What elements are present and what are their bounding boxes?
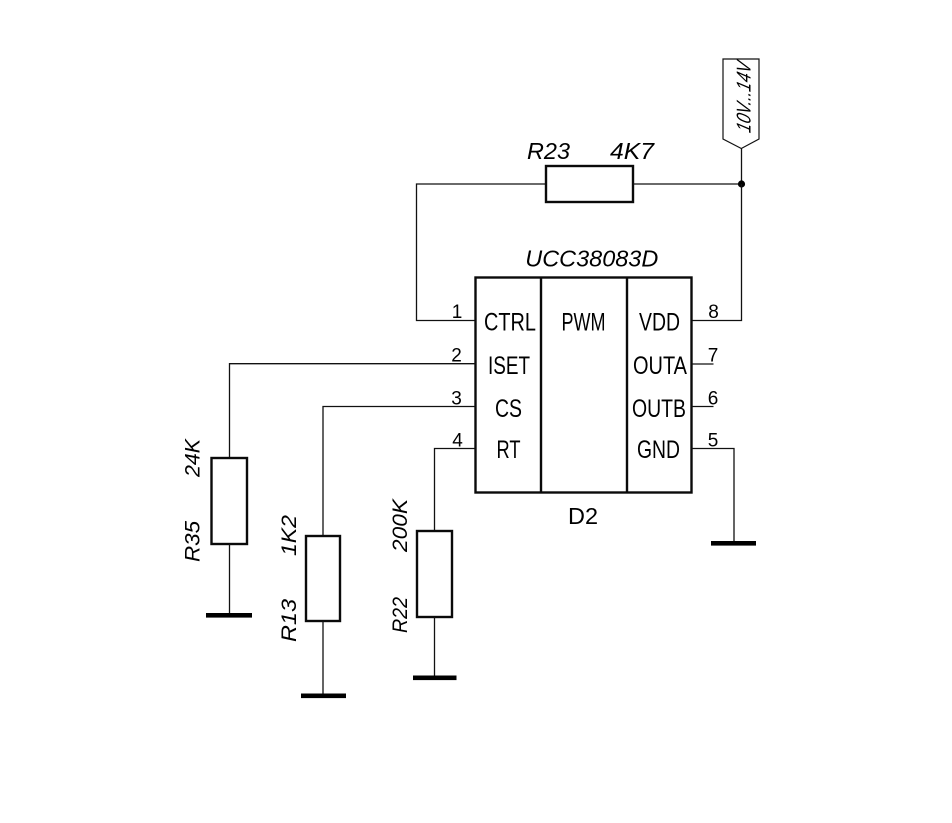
svg-text:1: 1 <box>452 302 463 323</box>
IC D2 UCC38083D body <box>476 278 692 493</box>
svg-text:CTRL: CTRL <box>484 309 536 337</box>
svg-text:8: 8 <box>708 302 719 323</box>
svg-text:R13: R13 <box>278 599 301 642</box>
power flag 10V...14V <box>723 59 759 149</box>
wire GND pin5 to ground <box>692 449 735 542</box>
ground at pin5 <box>711 541 756 546</box>
node A junction dot <box>738 180 745 187</box>
resistor R22 <box>417 531 452 617</box>
svg-text:RT: RT <box>497 436 521 464</box>
wire flag to node A <box>741 149 743 185</box>
pin 7 stub lead <box>692 363 714 365</box>
resistor R35 <box>212 458 248 544</box>
wire RT pin4 to R22 <box>435 449 476 532</box>
wire CTRL pin1 to R23 left <box>417 184 547 321</box>
ground under R22 <box>413 676 457 681</box>
svg-text:ISET: ISET <box>488 352 530 380</box>
wire CS pin3 to R13 <box>323 407 476 537</box>
svg-text:UCC38083D: UCC38083D <box>525 246 658 272</box>
svg-text:GND: GND <box>637 436 680 464</box>
svg-text:PWM: PWM <box>562 309 606 337</box>
wire ISET pin2 to R35 <box>230 364 476 458</box>
svg-text:4K7: 4K7 <box>610 138 655 164</box>
svg-text:D2: D2 <box>568 503 598 529</box>
svg-text:200K: 200K <box>389 498 412 553</box>
svg-text:10V...14V: 10V...14V <box>734 57 756 135</box>
wire node A to VDD pin 8 <box>692 184 742 321</box>
svg-text:VDD: VDD <box>639 309 680 337</box>
svg-text:R22: R22 <box>389 597 412 633</box>
wire R22 to ground <box>434 617 436 676</box>
wire R23 right to node A <box>633 183 742 185</box>
resistor R13 <box>306 536 340 621</box>
svg-text:CS: CS <box>495 395 522 423</box>
pin 6 stub lead <box>692 406 714 408</box>
svg-text:24K: 24K <box>182 438 205 478</box>
svg-text:1K2: 1K2 <box>278 515 301 556</box>
wire R13 to ground <box>322 621 324 694</box>
ground under R35 <box>206 613 252 618</box>
wire R35 to ground <box>229 544 231 613</box>
ground under R13 <box>301 694 346 699</box>
svg-text:R35: R35 <box>182 521 205 562</box>
svg-text:OUTB: OUTB <box>632 395 686 423</box>
resistor R23 <box>546 166 633 202</box>
svg-text:R23: R23 <box>527 138 570 164</box>
svg-text:OUTA: OUTA <box>633 352 687 380</box>
